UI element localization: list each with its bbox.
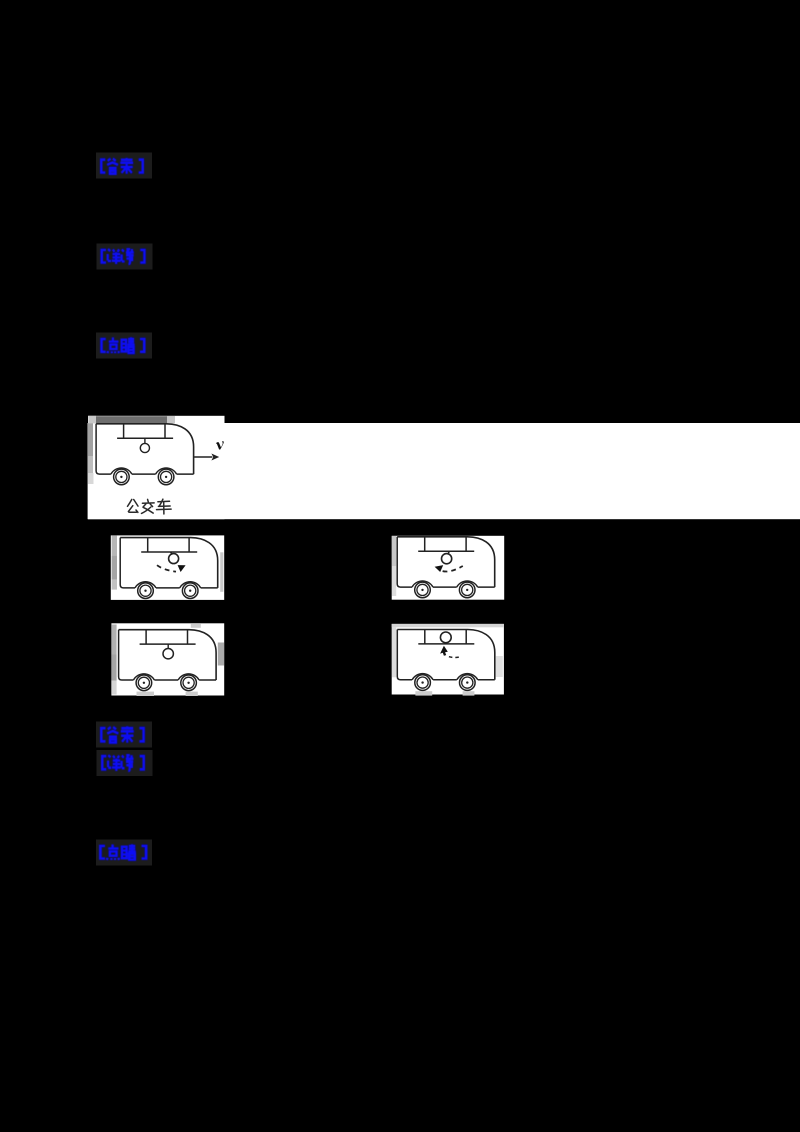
figure B box — [392, 536, 505, 600]
char jiao — [147, 499, 150, 502]
small dashes — [449, 656, 459, 659]
blue label 1 halo — [96, 153, 152, 179]
swing arrowhead down — [178, 565, 186, 572]
blue label 5 (explain Q2) — [101, 755, 145, 771]
ring above rail — [440, 632, 451, 643]
figure C bus — [119, 630, 217, 691]
figure A box — [111, 535, 224, 600]
main figure roof gray bar — [96, 416, 167, 423]
swing arc dashes — [443, 566, 463, 572]
blue label 1 (answer Q1) — [100, 158, 144, 174]
blue label 2 (explain Q1) — [100, 249, 145, 264]
swing arrowhead down-left — [435, 565, 444, 572]
roof bar end caps — [88, 416, 96, 424]
main figure white band — [88, 423, 800, 519]
blue label 2 halo — [97, 244, 153, 270]
blue label 5 halo — [97, 750, 153, 776]
main bus drawing — [96, 424, 224, 485]
v label — [216, 441, 224, 449]
figure D box — [392, 624, 504, 695]
figure A bus — [120, 538, 218, 599]
cursor arrow up-left — [440, 646, 448, 656]
main figure left edge gray strip — [88, 423, 93, 456]
blue label 3 (note Q1) — [100, 337, 145, 353]
figure D bus — [397, 630, 495, 691]
handle strap swung — [171, 552, 173, 555]
figure B bus — [397, 537, 495, 598]
char che — [159, 499, 163, 506]
blue label 6 halo — [96, 840, 152, 866]
velocity arrow — [194, 454, 219, 461]
blue label 4 halo — [96, 722, 152, 748]
caption gong jiao che (bus) — [128, 499, 172, 514]
blue label 6 (note Q2) — [99, 844, 147, 860]
figure C box — [111, 623, 224, 695]
main figure bus image area — [88, 416, 225, 519]
blue label 3 halo — [96, 333, 152, 359]
blue label 4 (answer Q2) — [100, 726, 145, 742]
handle strap swung — [448, 551, 449, 553]
swing arc dashes — [157, 565, 176, 571]
char gong — [128, 499, 132, 506]
